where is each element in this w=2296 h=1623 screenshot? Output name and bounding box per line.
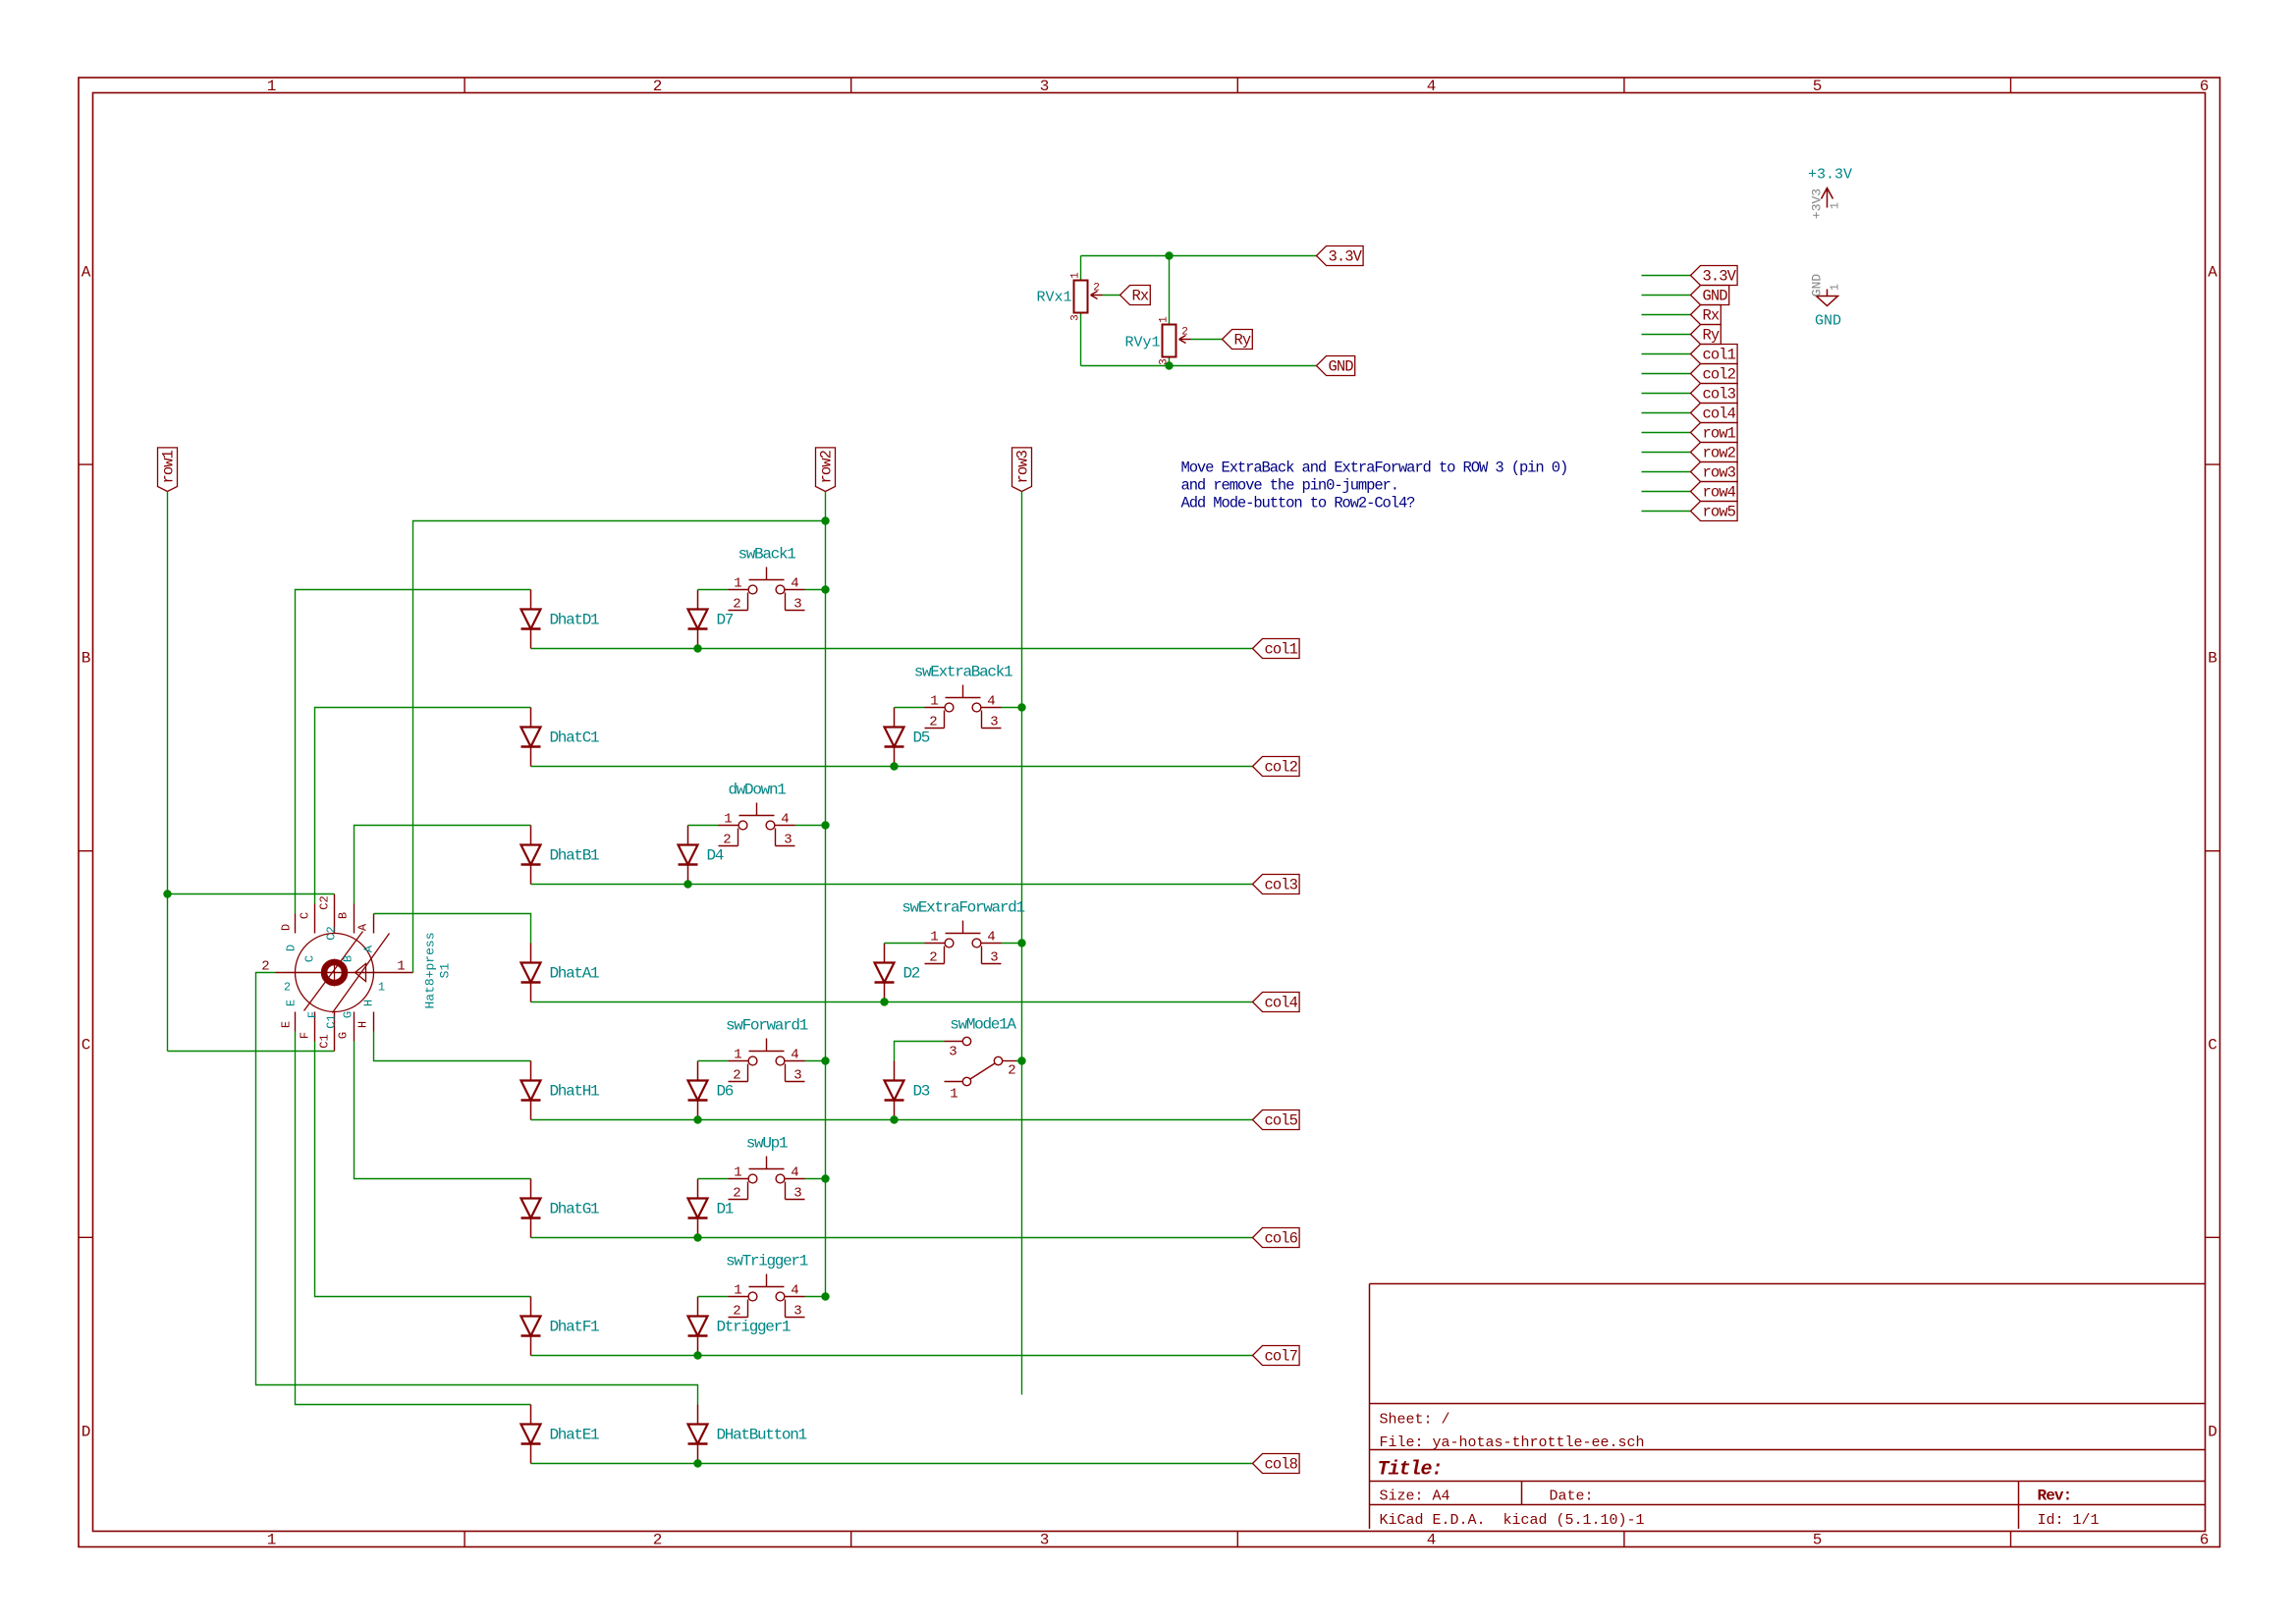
svg-text:KiCad E.D.A. kicad (5.1.10)-1: KiCad E.D.A. kicad (5.1.10)-1 <box>1380 1512 1645 1529</box>
svg-text:col1: col1 <box>1703 347 1736 364</box>
wire connector stub row5 <box>1642 511 1691 513</box>
svg-text:dwDown1: dwDown1 <box>728 782 786 799</box>
diode Dtrigger1 pin/body <box>688 1297 708 1356</box>
svg-text:G: G <box>342 1011 355 1018</box>
svg-text:col6: col6 <box>1265 1230 1298 1248</box>
svg-text:RVy1: RVy1 <box>1124 335 1160 352</box>
svg-text:RVx1: RVx1 <box>1036 290 1071 306</box>
svg-text:A: A <box>82 264 91 282</box>
wire D4 to dwDown1 pin1 <box>688 825 719 827</box>
junction swForward1 pin4 / row2 bus <box>821 1056 829 1064</box>
wire swUp1 pin4 to row2 bus <box>805 1178 826 1180</box>
switch swTrigger1 body <box>729 1274 805 1318</box>
hat switch S1 center button ring <box>324 962 345 983</box>
diode DHatButton1 pin/body <box>688 1405 708 1464</box>
junction swBack1 pin4 / row2 bus <box>821 585 829 593</box>
potentiometer RVx1 wiper arrow <box>1091 292 1103 299</box>
potentiometer RVy1 wiper arrow <box>1179 336 1191 344</box>
svg-text:col4: col4 <box>1703 406 1736 423</box>
hierarchical label connector row4 <box>1691 482 1738 502</box>
wire connector stub row4 <box>1642 491 1691 493</box>
hierarchical label col7 <box>1253 1346 1300 1366</box>
diode DhatB1 pin/body <box>521 826 541 885</box>
hierarchical label connector col1 <box>1691 345 1738 364</box>
svg-text:col8: col8 <box>1265 1456 1298 1474</box>
diode DhatF1 pin/body <box>521 1297 541 1356</box>
hat switch S1 pin B <box>354 904 355 934</box>
svg-text:3: 3 <box>1159 358 1171 365</box>
diode DhatA1 pin/body <box>521 944 541 1002</box>
svg-text:2: 2 <box>1181 327 1188 339</box>
junction D4 cathode / col3 <box>683 880 691 888</box>
hat switch S1 center cross <box>334 959 336 987</box>
hat switch S1 pin F <box>314 1012 316 1042</box>
svg-text:DhatD1: DhatD1 <box>550 612 600 629</box>
svg-text:3: 3 <box>793 1068 801 1084</box>
wire hat pin1 to row2 bus <box>413 521 826 973</box>
frame row tick marks <box>79 464 2220 1237</box>
hat switch S1 pin H <box>373 1012 375 1032</box>
title block date divider <box>1521 1482 1523 1505</box>
wire RVy1 wiper to Ry <box>1191 339 1223 341</box>
svg-text:Rev:: Rev: <box>2038 1488 2072 1505</box>
svg-text:2: 2 <box>929 950 937 966</box>
junction DHatButton1 cathode / col8 <box>693 1459 701 1467</box>
wire RVx1 pin3 <box>1080 313 1082 366</box>
wire RVx1 pin1 <box>1080 256 1082 281</box>
wire D6 to swForward1 pin1 <box>698 1060 729 1062</box>
diode D4 pin/body <box>679 826 698 885</box>
svg-text:D7: D7 <box>717 612 734 629</box>
wire hat E to row8 <box>296 1032 531 1405</box>
svg-text:Sheet: /: Sheet: / <box>1380 1412 1450 1429</box>
wire RVy1 pin1 <box>1169 256 1171 325</box>
hat switch S1 pin C <box>314 904 316 934</box>
junction swMode1A pin2 / row3 bus <box>1017 1056 1025 1064</box>
svg-text:Ry: Ry <box>1703 327 1720 345</box>
wire col8 horizontal <box>531 1463 1253 1465</box>
svg-text:C: C <box>299 912 312 919</box>
switch swUp1 body <box>729 1157 805 1200</box>
svg-text:1: 1 <box>378 981 385 995</box>
svg-text:A: A <box>362 945 376 952</box>
svg-text:2: 2 <box>653 78 663 95</box>
svg-text:4: 4 <box>791 576 798 592</box>
svg-text:swExtraForward1: swExtraForward1 <box>902 899 1024 917</box>
frame column tick marks <box>465 78 2010 1547</box>
wire swForward1 pin4 to row2 bus <box>805 1060 826 1062</box>
hierarchical label connector GND <box>1691 286 1729 305</box>
hierarchical label connector col4 <box>1691 404 1738 423</box>
svg-text:H: H <box>362 1000 376 1006</box>
svg-text:4: 4 <box>1427 78 1437 95</box>
wire hat H to row5 <box>374 1032 531 1061</box>
svg-text:A: A <box>2208 264 2217 282</box>
wire D5 to swExtraBack1 pin1 <box>895 707 925 709</box>
wire connector stub col3 <box>1642 393 1691 395</box>
junction dwDown1 pin4 / row2 bus <box>821 821 829 829</box>
svg-text:G: G <box>337 1032 351 1039</box>
svg-text:D6: D6 <box>717 1083 734 1101</box>
svg-text:1: 1 <box>1159 316 1171 323</box>
potentiometer RVx1 body <box>1074 281 1088 313</box>
svg-text:5: 5 <box>1813 1532 1823 1549</box>
svg-text:3: 3 <box>793 1186 801 1202</box>
junction row1/C2 branch <box>163 890 171 897</box>
wire hat pin2 to DHatButton1 <box>256 973 698 1405</box>
hierarchical label col2 <box>1253 757 1300 777</box>
svg-text:DhatH1: DhatH1 <box>550 1083 600 1101</box>
hierarchical label row1 <box>158 448 178 492</box>
svg-text:2: 2 <box>261 959 269 975</box>
wire col1 horizontal <box>531 648 1253 650</box>
hierarchical label connector col3 <box>1691 384 1738 404</box>
svg-text:D: D <box>82 1424 91 1441</box>
svg-text:row1: row1 <box>160 450 178 483</box>
wire col2 horizontal <box>531 766 1253 768</box>
wire col3 horizontal <box>531 884 1253 886</box>
svg-text:1: 1 <box>950 1087 957 1103</box>
svg-text:col7: col7 <box>1265 1348 1298 1366</box>
svg-text:3: 3 <box>793 1304 801 1320</box>
svg-text:5: 5 <box>1813 78 1823 95</box>
hierarchical label connector row2 <box>1691 443 1738 462</box>
svg-text:3: 3 <box>990 715 998 730</box>
wire dwDown1 pin4 to row2 bus <box>795 825 826 827</box>
diode DhatG1 pin/body <box>521 1179 541 1238</box>
hat switch S1 pin E <box>295 1012 297 1032</box>
svg-text:1: 1 <box>930 930 938 946</box>
hat switch S1 pin D <box>295 914 297 934</box>
svg-text:C: C <box>82 1037 91 1055</box>
svg-text:2: 2 <box>1093 283 1100 295</box>
svg-text:F: F <box>306 1011 320 1018</box>
wire D1 to swUp1 pin1 <box>698 1178 729 1180</box>
hierarchical label connector col2 <box>1691 364 1738 384</box>
svg-text:Add Mode-button to Row2-Col4?: Add Mode-button to Row2-Col4? <box>1181 495 1416 513</box>
svg-text:col3: col3 <box>1703 386 1736 404</box>
junction D3 cathode / col5 <box>890 1115 898 1123</box>
svg-text:Move ExtraBack and ExtraForwar: Move ExtraBack and ExtraForward to ROW 3… <box>1181 460 1568 477</box>
svg-text:swMode1A: swMode1A <box>950 1016 1016 1034</box>
svg-text:1: 1 <box>1070 272 1082 279</box>
svg-text:2: 2 <box>653 1532 663 1549</box>
svg-text:1: 1 <box>267 78 277 95</box>
wire hat G to row6 <box>355 1042 531 1179</box>
svg-text:GND: GND <box>1703 288 1728 305</box>
hierarchical label GND <box>1317 356 1355 376</box>
wire connector stub col4 <box>1642 412 1691 414</box>
power symbol GND glyph <box>1817 290 1838 306</box>
svg-text:Ry: Ry <box>1234 332 1251 350</box>
junction D7 cathode / col1 <box>693 644 701 652</box>
svg-text:2: 2 <box>1008 1063 1015 1079</box>
svg-text:3: 3 <box>784 833 792 848</box>
wire 3.3V rail <box>1081 255 1317 257</box>
diode D5 pin/body <box>885 708 904 767</box>
hierarchical label Ry <box>1223 330 1253 350</box>
svg-text:C1: C1 <box>318 1034 332 1048</box>
svg-text:2: 2 <box>733 1068 740 1084</box>
svg-text:DhatA1: DhatA1 <box>550 965 600 983</box>
wire col6 horizontal <box>531 1237 1253 1239</box>
switch swBack1 body <box>729 568 805 611</box>
wire connector stub Ry <box>1642 334 1691 336</box>
switch swForward1 body <box>729 1039 805 1082</box>
hierarchical label row3 <box>1012 448 1032 492</box>
svg-text:row2: row2 <box>818 450 836 483</box>
svg-text:H: H <box>356 1021 370 1028</box>
svg-text:GND: GND <box>1329 358 1354 376</box>
svg-text:Dtrigger1: Dtrigger1 <box>717 1319 791 1336</box>
svg-text:4: 4 <box>781 812 789 828</box>
hat switch S1 pin C2 <box>334 894 336 934</box>
potentiometer RVy1 body <box>1163 325 1176 357</box>
svg-text:2: 2 <box>733 597 740 613</box>
diode D1 pin/body <box>688 1179 708 1238</box>
wire connector stub col2 <box>1642 373 1691 375</box>
svg-text:C2: C2 <box>325 926 339 940</box>
svg-text:2: 2 <box>284 981 291 995</box>
hat switch S1 pin A <box>373 914 375 934</box>
hierarchical label connector Rx <box>1691 305 1722 325</box>
svg-text:D5: D5 <box>913 730 930 747</box>
diode DhatC1 pin/body <box>521 708 541 767</box>
hierarchical label connector Ry <box>1691 325 1722 345</box>
hat switch S1 pin G <box>354 1012 355 1042</box>
svg-text:3: 3 <box>1070 314 1082 321</box>
svg-text:2: 2 <box>733 1186 740 1202</box>
svg-text:B: B <box>82 650 91 668</box>
wire Dtrigger1 to swTrigger1 pin1 <box>698 1296 729 1298</box>
hat switch S1 press arrow <box>355 964 366 982</box>
hierarchical label col5 <box>1253 1110 1300 1130</box>
svg-text:D2: D2 <box>903 965 920 983</box>
svg-text:6: 6 <box>2200 78 2210 95</box>
svg-text:swTrigger1: swTrigger1 <box>726 1253 808 1271</box>
title block rev divider <box>2018 1482 2020 1530</box>
svg-text:S1: S1 <box>438 963 453 979</box>
svg-text:B: B <box>2208 650 2217 668</box>
svg-text:4: 4 <box>791 1165 798 1181</box>
hierarchical label connector row3 <box>1691 462 1738 482</box>
diode DhatE1 pin/body <box>521 1405 541 1464</box>
svg-text:4: 4 <box>791 1283 798 1299</box>
hat switch S1 actuator slants <box>304 932 390 1013</box>
svg-text:C1: C1 <box>325 1014 339 1028</box>
hierarchical label connector row5 <box>1691 502 1738 521</box>
junction RVy1 top / 3.3V rail <box>1165 251 1173 259</box>
wire swMode1A pin2 to row3 bus <box>1016 1060 1022 1062</box>
junction swUp1 pin4 / row2 bus <box>821 1174 829 1182</box>
svg-text:col2: col2 <box>1265 759 1298 777</box>
wire RVy1 pin3 <box>1169 358 1171 366</box>
svg-text:1: 1 <box>267 1532 277 1549</box>
svg-text:row3: row3 <box>1014 450 1032 483</box>
junction D5 cathode / col2 <box>890 762 898 770</box>
wire swBack1 pin4 to row2 bus <box>805 589 826 591</box>
svg-text:Rx: Rx <box>1132 288 1149 305</box>
svg-text:C: C <box>303 955 317 962</box>
svg-text:swBack1: swBack1 <box>738 546 795 564</box>
svg-text:Rx: Rx <box>1703 307 1720 325</box>
diode D7 pin/body <box>688 590 708 649</box>
svg-text:3: 3 <box>1040 1532 1050 1549</box>
svg-text:A: A <box>356 923 370 931</box>
svg-text:row1: row1 <box>1703 425 1736 443</box>
hierarchical label col4 <box>1253 993 1300 1012</box>
svg-text:4: 4 <box>987 930 995 946</box>
diode D6 pin/body <box>688 1061 708 1120</box>
wire swMode1A pin3 to D3 <box>895 1042 945 1061</box>
svg-text:D4: D4 <box>707 847 724 865</box>
wire hat A to row4 <box>374 914 531 944</box>
svg-text:3: 3 <box>793 597 801 613</box>
hierarchical label col3 <box>1253 875 1300 894</box>
wire GND rail <box>1081 365 1317 367</box>
power symbol +3.3V arrow <box>1822 189 1833 208</box>
svg-text:D: D <box>2208 1424 2217 1441</box>
wire row1 label vertical <box>167 492 169 1052</box>
wire col7 horizontal <box>531 1355 1253 1357</box>
svg-text:D: D <box>285 945 299 951</box>
hierarchical label col8 <box>1253 1454 1300 1474</box>
svg-text:1: 1 <box>734 1165 741 1181</box>
svg-text:Hat8+press: Hat8+press <box>423 932 438 1008</box>
switch swExtraForward1 body <box>925 921 1002 964</box>
svg-text:2: 2 <box>733 1304 740 1320</box>
svg-text:3.3V: 3.3V <box>1329 248 1363 266</box>
svg-text:3: 3 <box>990 950 998 966</box>
junction swExtraBack1 pin4 / row3 bus <box>1017 703 1025 711</box>
wire hat F to row7 <box>315 1042 531 1297</box>
diode D3 pin/body <box>885 1061 904 1120</box>
wire swExtraForward1 pin4 to row3 bus <box>1002 943 1022 945</box>
junction Dtrigger1 cathode / col7 <box>693 1351 701 1359</box>
svg-text:row3: row3 <box>1703 464 1736 482</box>
svg-text:col5: col5 <box>1265 1112 1298 1130</box>
svg-text:F: F <box>299 1032 312 1039</box>
svg-text:E: E <box>280 1021 294 1028</box>
wire hat C to row2 <box>315 708 531 904</box>
junction D1 cathode / col6 <box>693 1233 701 1241</box>
svg-text:C2: C2 <box>318 895 332 909</box>
svg-text:row4: row4 <box>1703 484 1736 502</box>
wire D2 to swExtraForward1 pin1 <box>885 943 925 945</box>
svg-text:2: 2 <box>929 715 937 730</box>
svg-text:D1: D1 <box>717 1201 734 1218</box>
svg-text:2: 2 <box>723 833 731 848</box>
hierarchical label connector 3.3V <box>1691 266 1738 286</box>
svg-text:row2: row2 <box>1703 445 1736 462</box>
junction D2 cathode / col4 <box>880 998 888 1005</box>
hat switch S1 pin C1 <box>334 1012 336 1052</box>
switch swMode1A body <box>945 1037 1018 1085</box>
svg-text:3: 3 <box>949 1045 957 1060</box>
svg-text:swUp1: swUp1 <box>746 1135 788 1153</box>
hierarchical label row2 <box>816 448 836 492</box>
wire connector stub row1 <box>1642 432 1691 434</box>
svg-text:D3: D3 <box>913 1083 930 1101</box>
svg-text:DHatButton1: DHatButton1 <box>717 1427 807 1444</box>
svg-text:Date:: Date: <box>1550 1488 1594 1505</box>
svg-text:1: 1 <box>734 576 741 592</box>
svg-text:File: ya-hotas-throttle-ee.sch: File: ya-hotas-throttle-ee.sch <box>1380 1434 1645 1451</box>
svg-text:Size: A4: Size: A4 <box>1380 1488 1450 1505</box>
svg-text:1: 1 <box>1829 284 1842 291</box>
svg-text:1: 1 <box>734 1048 741 1063</box>
svg-text:6: 6 <box>2200 1532 2210 1549</box>
svg-text:col3: col3 <box>1265 877 1298 894</box>
wire row2 bus vertical <box>825 492 827 1297</box>
hierarchical label connector row1 <box>1691 423 1738 443</box>
svg-text:4: 4 <box>987 694 995 710</box>
wire row3 bus vertical <box>1021 492 1023 1395</box>
svg-text:3: 3 <box>1040 78 1050 95</box>
hierarchical label col6 <box>1253 1228 1300 1248</box>
title block outline <box>1370 1284 2206 1530</box>
svg-text:B: B <box>337 912 351 919</box>
svg-text:swForward1: swForward1 <box>726 1017 808 1035</box>
wire connector stub row2 <box>1642 452 1691 454</box>
wire swTrigger1 pin4 to row2 bus <box>805 1296 826 1298</box>
wire swExtraBack1 pin4 to row3 bus <box>1002 707 1022 709</box>
diode DhatH1 pin/body <box>521 1061 541 1120</box>
svg-text:3.3V: 3.3V <box>1703 268 1737 286</box>
svg-text:col4: col4 <box>1265 995 1298 1012</box>
hierarchical label 3.3V <box>1317 246 1364 266</box>
wire connector stub col1 <box>1642 353 1691 355</box>
svg-text:1: 1 <box>734 1283 741 1299</box>
svg-text:B: B <box>342 955 355 962</box>
wire hat D to row1 <box>296 590 531 914</box>
svg-text:row5: row5 <box>1703 504 1736 521</box>
wire col5 horizontal <box>531 1119 1253 1121</box>
svg-text:and remove the pin0-jumper.: and remove the pin0-jumper. <box>1181 477 1398 495</box>
junction D6 cathode / col5 <box>693 1115 701 1123</box>
wire RVx1 wiper to Rx <box>1103 295 1121 297</box>
hat switch S1 circle <box>296 934 374 1012</box>
junction swTrigger1 pin4 / row2 bus <box>821 1292 829 1300</box>
svg-text:+3V3: +3V3 <box>1810 189 1825 219</box>
hierarchical label Rx <box>1121 286 1151 305</box>
wire C2 branch <box>168 893 335 895</box>
svg-text:GND: GND <box>1815 313 1841 330</box>
wire connector stub Rx <box>1642 314 1691 316</box>
svg-text:DhatC1: DhatC1 <box>550 730 600 747</box>
wire col4 horizontal <box>531 1001 1253 1003</box>
junction hat pin1 wire / row2 bus <box>821 516 829 524</box>
switch dwDown1 body <box>719 803 795 846</box>
junction swExtraForward1 pin4 / row3 bus <box>1017 939 1025 947</box>
hat switch S1 horizontal pin line <box>276 972 413 974</box>
wire D7 to swBack1 pin1 <box>698 589 729 591</box>
svg-text:GND: GND <box>1810 274 1825 298</box>
svg-text:+3.3V: +3.3V <box>1808 167 1852 184</box>
svg-text:E: E <box>285 1000 299 1006</box>
svg-text:D: D <box>280 924 294 931</box>
wire connector stub row3 <box>1642 471 1691 473</box>
wire connector stub 3.3V <box>1642 275 1691 277</box>
svg-text:col2: col2 <box>1703 366 1736 384</box>
hierarchical label col1 <box>1253 639 1300 659</box>
svg-text:DhatG1: DhatG1 <box>550 1201 600 1218</box>
svg-text:4: 4 <box>1427 1532 1437 1549</box>
wire connector stub GND <box>1642 295 1691 297</box>
wire C1 branch <box>168 1051 335 1053</box>
svg-text:Title:: Title: <box>1378 1459 1443 1482</box>
svg-text:DhatE1: DhatE1 <box>550 1427 600 1444</box>
